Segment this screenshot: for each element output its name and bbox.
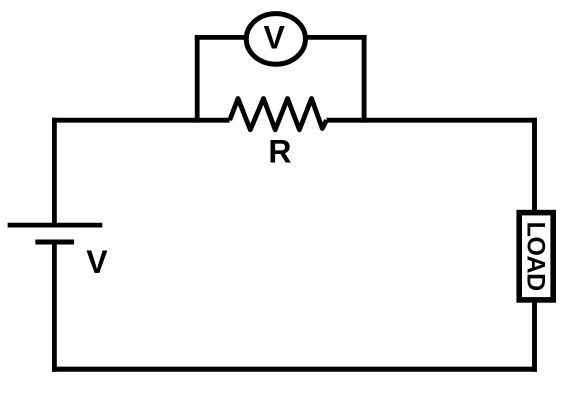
wire: voltmeter bridge left vertical bbox=[195, 35, 200, 123]
wire: left vertical upper (top wire to battery +) bbox=[52, 118, 57, 225]
wire: top left segment (battery node to resistor) bbox=[52, 118, 230, 123]
svg-text:V: V bbox=[86, 244, 108, 280]
svg-text:LOAD: LOAD bbox=[521, 222, 549, 291]
battery V negative plate bbox=[35, 240, 74, 245]
svg-text:V: V bbox=[264, 20, 286, 56]
voltmeter M1 circle bbox=[246, 14, 305, 65]
wire: left vertical lower (battery - to bottom wire) bbox=[52, 242, 57, 372]
wire: voltmeter bridge right horizontal bbox=[302, 35, 367, 40]
battery V positive plate bbox=[8, 223, 103, 228]
LOAD box bbox=[519, 213, 553, 300]
wire: right vertical lower (LOAD to bottom wire) bbox=[532, 298, 537, 372]
wire: bottom return bbox=[52, 367, 537, 372]
wire: right vertical upper (top wire to LOAD) bbox=[532, 118, 537, 214]
resistor R zigzag bbox=[230, 99, 327, 130]
wire: voltmeter bridge right vertical bbox=[362, 35, 367, 123]
wire: voltmeter bridge left horizontal bbox=[195, 35, 250, 40]
svg-text:R: R bbox=[268, 134, 291, 170]
wire: top right segment (resistor to load node) bbox=[327, 118, 538, 123]
